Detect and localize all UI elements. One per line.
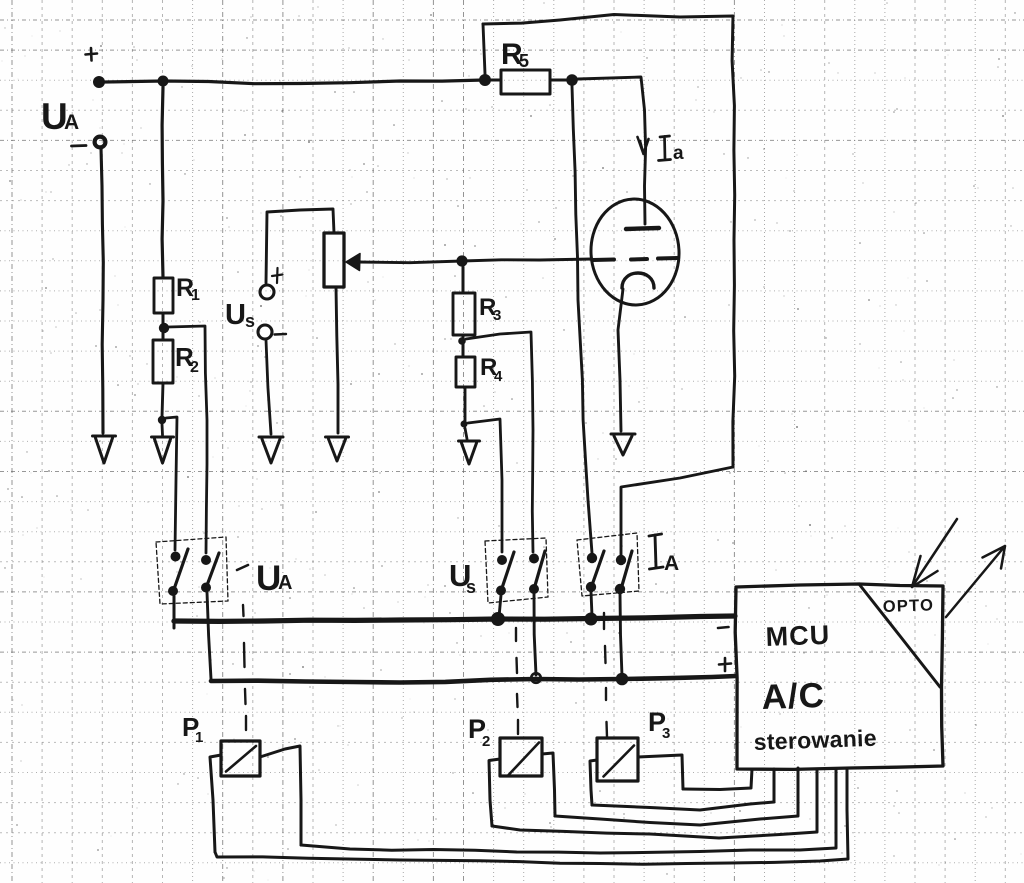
node bus1-Us junction [491,612,505,626]
svg-text:1: 1 [191,287,200,304]
wire rail to R1 [161,87,165,277]
ground Us- [259,436,283,439]
wire R5 junction to IA switch left [572,86,592,553]
ground cathode [611,433,635,436]
svg-text:U: U [225,299,246,331]
wire P1 right lead [260,746,301,845]
node R2-bottom junction [158,416,166,424]
switch UA right blade [206,553,219,588]
wire R4 down [464,387,467,422]
switch Us contact RB [529,584,539,594]
wire P2 left to MCU [492,769,817,838]
tube anode plate [626,228,659,229]
wire P2 right to MCU [555,768,798,825]
wire R2 to ground [161,424,164,435]
node R3-R4 junction [458,337,466,345]
wire P3 left lead [590,760,597,805]
svg-text:OPTO: OPTO [883,596,935,616]
terminal Us- [258,325,272,339]
switch Us contact RT [529,554,539,564]
dashed link Us switch to P2 [516,628,518,734]
resistor R4 [456,357,475,387]
svg-text:3: 3 [662,725,670,742]
wire top loop [483,15,735,468]
arrow out of OPTO [946,546,1005,617]
wire junction to anode corner [578,77,646,224]
bus1 measurement line [174,616,735,621]
MCU box outline [735,584,943,769]
wire top rail [105,80,484,84]
ground UA- [93,435,116,438]
wire pot top loop [266,209,334,283]
dashed link IA switch to P3 [604,613,607,737]
arrow into OPTO [912,519,957,587]
relay coil P3 [597,738,638,781]
svg-text:A: A [278,572,292,594]
wire P3 right lead [638,755,683,789]
plus label (Us+) [272,268,283,283]
wire P1 left to MCU [215,770,848,864]
node rail-left junction [158,76,169,87]
terminal UA+ [93,76,105,88]
switch UA dashed box [156,537,228,604]
wire junction to UA switch left [166,417,177,550]
wire P1 right to MCU [301,769,836,853]
wire junction to Us switch left [468,419,502,552]
switch IA dashed box [577,533,639,596]
wire R1 to R2 [162,313,165,340]
node rail-R5 junction [479,74,491,86]
node wiper-R3 junction [456,255,467,266]
potentiometer body [324,233,344,287]
wire IA switch left to bus1 [591,592,592,616]
resistor R2 [153,340,173,383]
switch Us right blade [534,551,545,589]
switch IA contact LT [587,553,597,563]
svg-text:2: 2 [190,359,199,376]
svg-text:A/C: A/C [761,676,826,717]
ground R2 [152,436,174,439]
switch Us left blade [501,552,514,591]
resistor R3 [453,293,475,335]
wire wiper to grid [358,259,592,263]
wire R5 right lead [550,79,566,82]
svg-text:4: 4 [494,368,503,385]
node bus1-IA junction [585,613,598,626]
label plus at MCU input [719,658,731,671]
wire Us- to ground [266,340,271,434]
wire IA switch right to bus2 [620,594,622,676]
MCU opto diagonal [859,584,940,687]
wire UA switch left to bus1 [173,596,176,628]
wire junction to Us switch right [466,332,533,552]
minus label (UA-) [72,144,87,147]
switch Us dashed box [485,538,548,603]
coil P3 diagonal [604,746,635,777]
svg-text:MCU: MCU [765,620,831,652]
wire R2 down [162,383,163,417]
relay coil P2 [500,738,542,776]
svg-text:a: a [673,143,684,164]
ground R4 [459,440,480,443]
switch UA left blade [173,549,188,592]
ground potentiometer [326,436,349,439]
plus label (UA+) [86,48,98,61]
wire cathode to ground [618,289,623,431]
svg-text:s: s [245,311,255,331]
switch IA contact LB [586,582,596,592]
potentiometer wiper arrow [346,254,360,271]
tube cathode [622,273,654,288]
svg-text:3: 3 [493,307,501,324]
wire P2 right lead [542,753,555,816]
vacuum tube envelope [588,197,681,307]
resistor R5 [501,70,550,94]
svg-text:s: s [466,577,476,597]
svg-text:A: A [64,111,79,134]
node R5-right junction [566,74,578,86]
svg-text:sterowanie: sterowanie [753,725,877,755]
wire pot bottom to ground [336,287,338,433]
switch IA left blade [591,551,604,588]
bus2 measurement line [211,676,736,683]
wire loop down to IA switch right [621,467,733,556]
wire UA- to ground [101,148,103,433]
svg-text:1: 1 [195,729,203,746]
wire junction to R3 [462,267,465,292]
coil P2 diagonal [509,743,540,776]
node R4-bottom junction [461,421,468,428]
switch Us contact LB [496,586,506,596]
wire R5 left lead [491,79,501,82]
switch IA right blade [621,551,632,589]
node bus2-Us junction [531,673,541,683]
tube grid dashes [593,258,677,260]
switch UA contact LT [171,552,181,562]
switch UA contact LB [168,586,178,596]
node bus2-IA junction [616,673,629,686]
wire Us switch right to bus2 [534,594,536,675]
label Ia [659,136,671,161]
switch UA contact RB [201,583,211,593]
label IA (switch) [649,534,663,569]
relay coil P1 [221,741,260,776]
minus label (Us-) [275,333,287,336]
switch IA contact RB [615,584,625,594]
resistor R1 [154,278,173,313]
coil P1 diagonal [226,746,256,772]
svg-text:A: A [664,552,679,575]
wire P2 left lead [489,759,500,826]
node R1-R2 junction [159,323,169,333]
switch Us contact LT [497,555,507,565]
wire rail junction up [483,24,485,74]
wire R4 to ground [465,428,467,439]
wire Us switch left to bus1 [499,595,501,617]
terminal Us+ [260,285,274,299]
dashed link UA switch to P1 [243,605,246,730]
arrow Ia on anode wire [638,137,649,154]
label UA (switch) minus tick [237,565,248,570]
wire junction to UA switch right [168,326,207,553]
switch IA contact RT [616,555,626,565]
wire P3 left to MCU [592,769,774,810]
terminal UA- [95,137,106,148]
wire UA switch right to bus2 [207,592,211,679]
wire P1 left lead [210,755,221,852]
svg-text:5: 5 [519,51,529,71]
label minus at MCU input [718,627,729,628]
wire R3 to R4 [462,335,465,357]
wire P3 right to MCU [683,769,752,790]
switch UA contact RT [201,555,211,565]
svg-text:2: 2 [482,733,490,750]
